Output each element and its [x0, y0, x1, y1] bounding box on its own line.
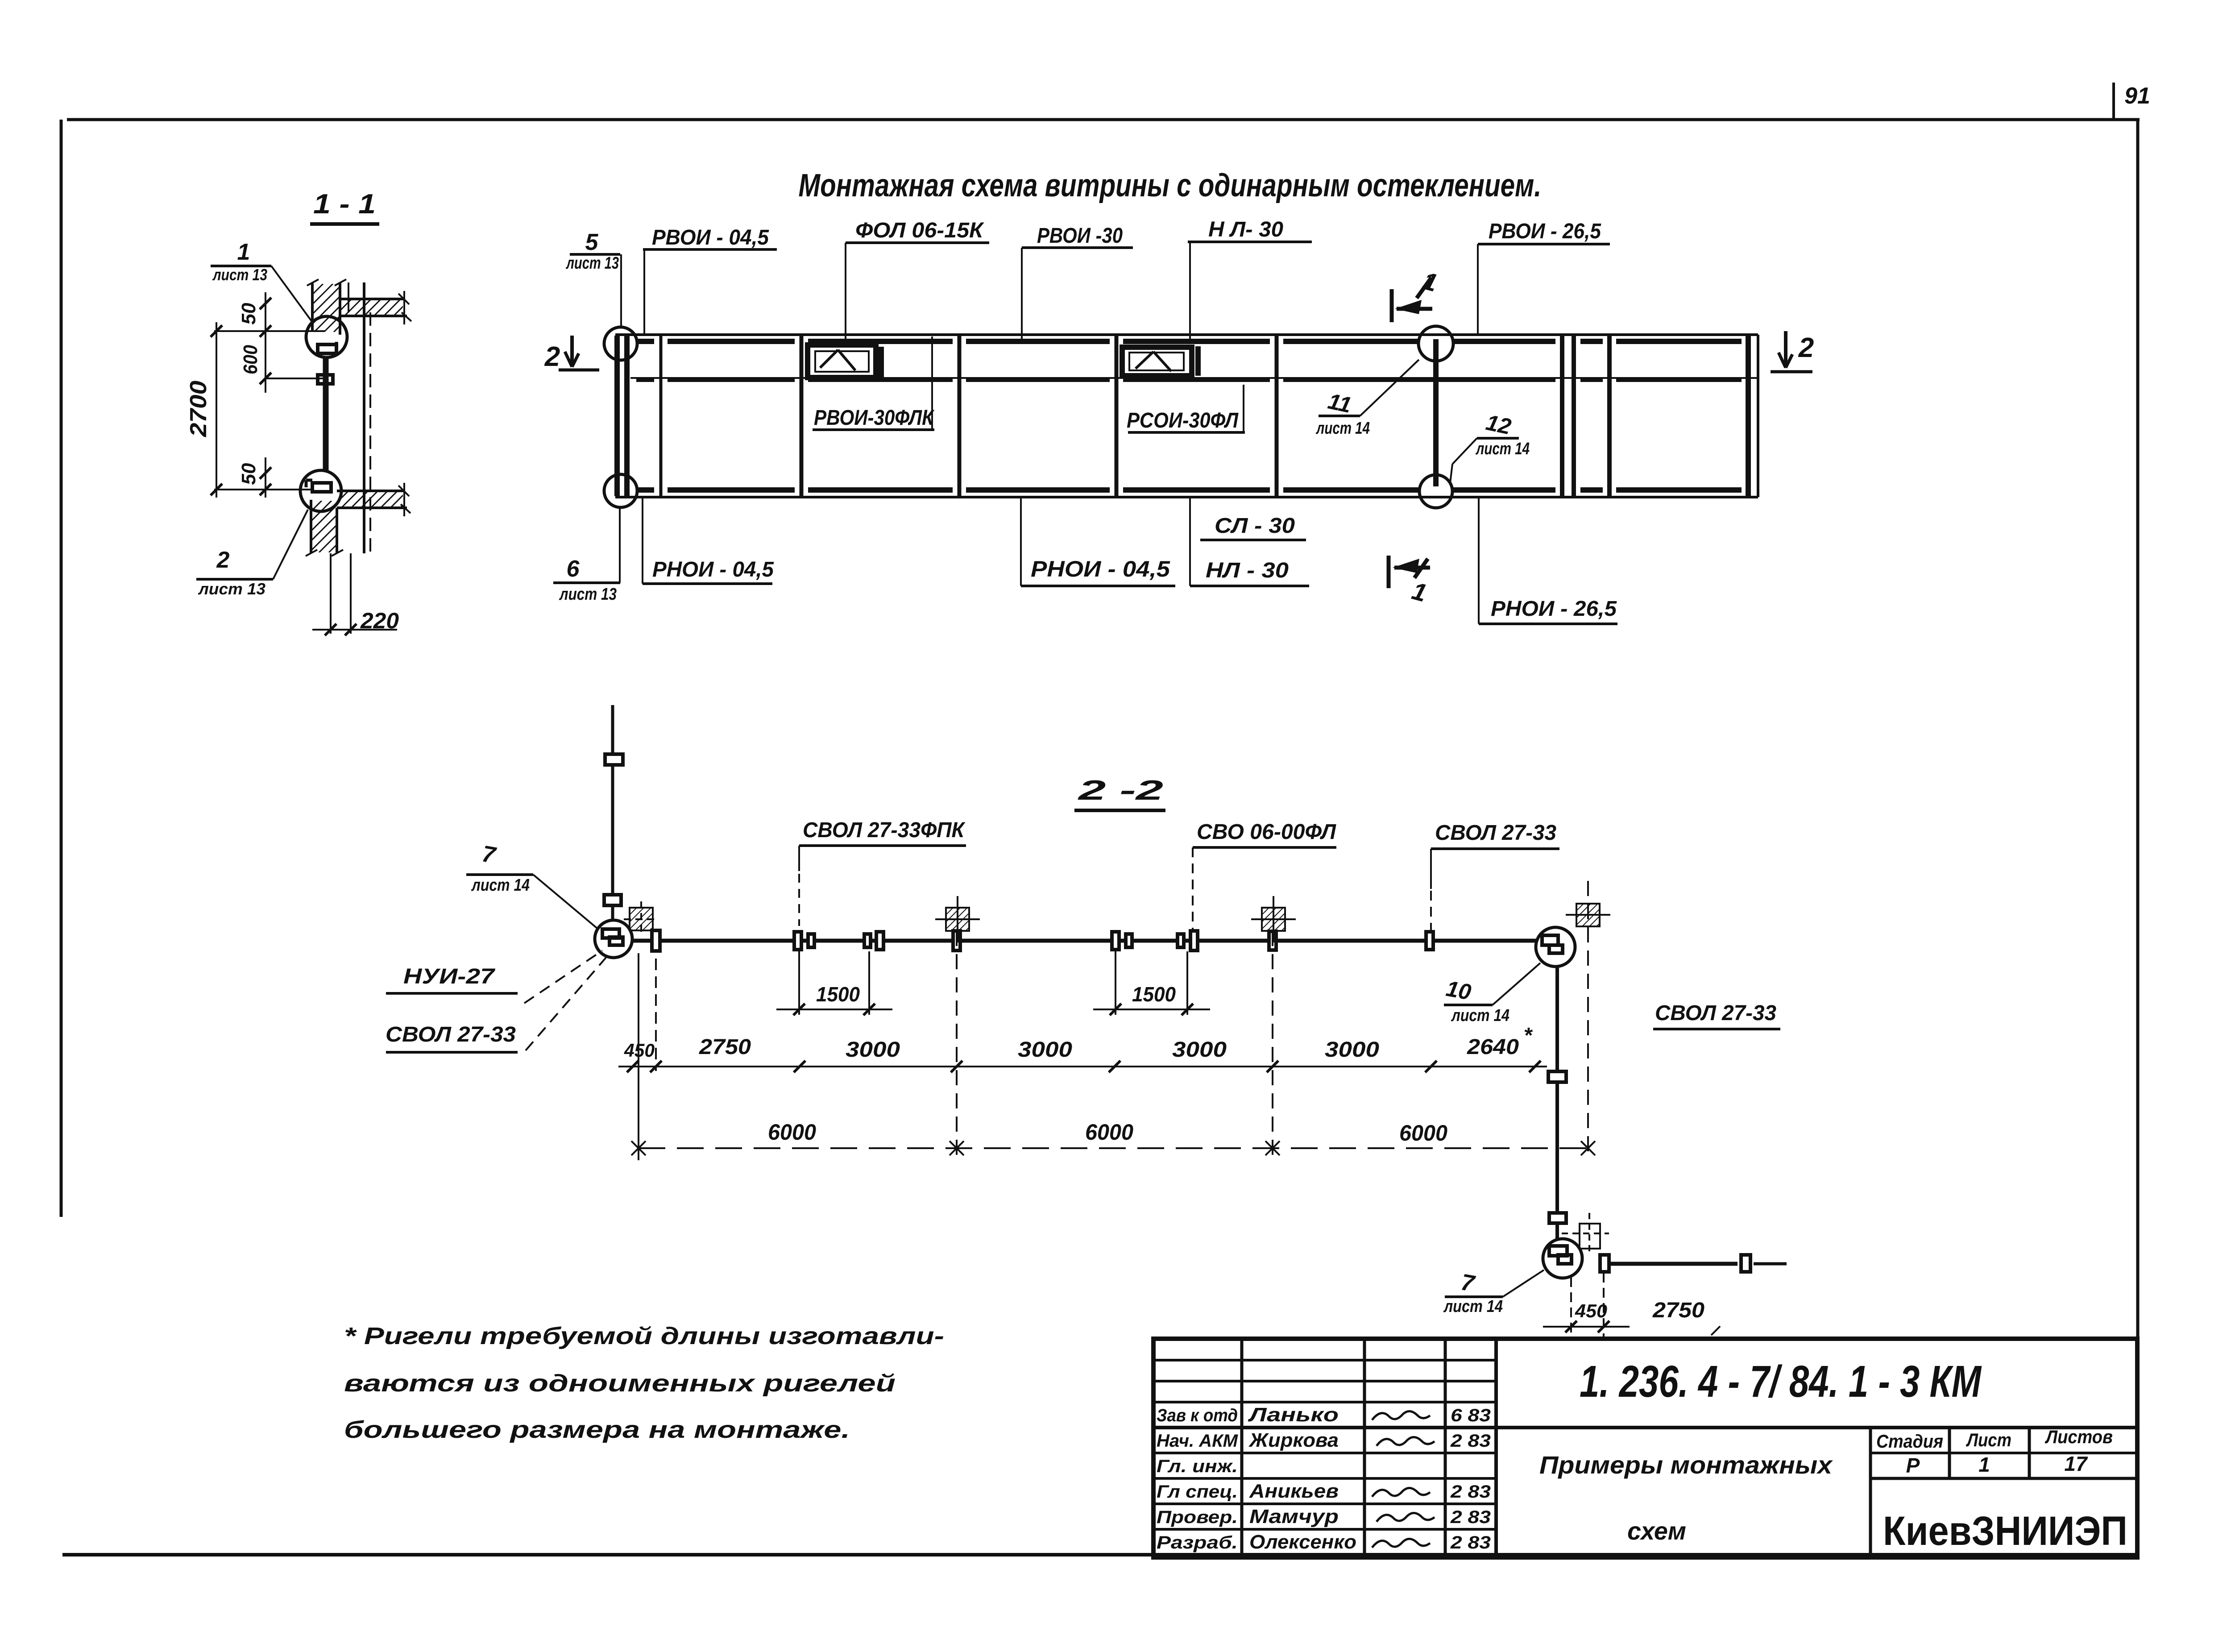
svg-text:6000: 6000 [1399, 1121, 1447, 1146]
node circle 6 (bottom left) [604, 474, 637, 507]
svg-text:6: 6 [567, 556, 580, 582]
svg-text:*: * [1524, 1024, 1533, 1047]
transom window FOL-1 [808, 345, 876, 378]
svg-text:7: 7 [480, 841, 498, 869]
dim witness top [214, 330, 325, 332]
svg-text:* Ригели требуемой длины и: * Ригели требуемой длины изготавли- [344, 1323, 944, 1349]
rail tick g (column) [1269, 931, 1276, 950]
expansion joint posts [1560, 336, 1564, 497]
sheet frame bottom border [62, 1553, 2138, 1557]
dim line 2700 [216, 322, 217, 498]
svg-text:СВОЛ 27-33ФПК: СВОЛ 27-33ФПК [803, 818, 966, 842]
svg-text:ваются из одноименных ригел: ваются из одноименных ригелей [344, 1370, 896, 1397]
svg-text:Монтажная схема витрины с: Монтажная схема витрины с одинарным осте… [799, 168, 1542, 203]
column B (hatched) [1262, 908, 1285, 931]
splice plate on return rail [1548, 1071, 1566, 1082]
bracket in circle 7b [1549, 1246, 1567, 1256]
svg-text:Стадия: Стадия [1876, 1431, 1943, 1452]
svg-text:12: 12 [1484, 410, 1514, 439]
svg-text:Листов: Листов [2044, 1426, 2113, 1447]
upper floor slab (hatched) [340, 298, 404, 300]
plate on axis lower [604, 895, 621, 905]
svg-text:СВОЛ 27-33: СВОЛ 27-33 [1655, 1001, 1776, 1025]
svg-text:11: 11 [1326, 389, 1353, 418]
sheet frame top border [67, 118, 2140, 121]
upper node circle 1 [306, 316, 347, 357]
dim 220 [312, 629, 397, 631]
rail tick pair c [864, 934, 871, 947]
svg-text:10: 10 [1444, 976, 1473, 1005]
return rail tick b [1741, 1255, 1750, 1272]
svg-text:220: 220 [360, 608, 399, 633]
svg-text:РВОИ -30: РВОИ -30 [1037, 224, 1123, 248]
splice plate [318, 375, 333, 384]
bracket in circle 7 [602, 929, 619, 938]
svg-text:Мамчур: Мамчур [1249, 1506, 1339, 1527]
svg-text:РНОИ - 26,5: РНОИ - 26,5 [1491, 597, 1617, 621]
dim chain row (450/2750/3000x4/2640*) [618, 1066, 1547, 1067]
bracket in circle 10 [1542, 935, 1558, 945]
svg-text:6000: 6000 [1085, 1120, 1133, 1145]
svg-text:лист 13: лист 13 [565, 254, 619, 273]
plan node circle 7 (bottom) [1543, 1239, 1582, 1278]
lower wall (hatched) [310, 500, 312, 553]
elevation top edge line [615, 333, 1758, 336]
section mark 2 (right) [1784, 331, 1787, 368]
column C (hatched) [1576, 904, 1600, 926]
svg-text:лист 13: лист 13 [559, 585, 617, 604]
svg-text:2 83: 2 83 [1450, 1431, 1491, 1451]
svg-text:3000: 3000 [846, 1038, 900, 1062]
elevation bottom edge line [615, 496, 1758, 498]
dim 1500 right [1115, 951, 1116, 1015]
wall axis line above [611, 705, 614, 920]
svg-text:Зав к отд: Зав к отд [1157, 1406, 1238, 1425]
svg-text:лист 14: лист 14 [1315, 419, 1370, 438]
section mark 1 (top) [1390, 289, 1394, 322]
wall bottom stubs [330, 553, 332, 634]
svg-text:2: 2 [1798, 332, 1814, 363]
svg-text:600: 600 [240, 345, 261, 374]
svg-text:2640: 2640 [1467, 1035, 1519, 1059]
svg-text:1: 1 [1420, 266, 1440, 297]
elevation bottom rail (dashed heavy) [638, 487, 654, 493]
svg-text:Нач. АКМ: Нач. АКМ [1157, 1431, 1239, 1451]
svg-text:2 83: 2 83 [1450, 1507, 1491, 1527]
dim witness bottom [214, 489, 312, 490]
svg-text:лист 13: лист 13 [212, 266, 267, 284]
return rail dash end [1754, 1262, 1787, 1266]
svg-text:Р: Р [1906, 1454, 1920, 1477]
signatures [1372, 1411, 1430, 1420]
svg-text:большего размера на монтаже.: большего размера на монтаже. [344, 1416, 850, 1443]
svg-text:РВОИ-30ФЛК: РВОИ-30ФЛК [814, 406, 935, 430]
mullion post (section) [323, 357, 329, 470]
svg-text:3000: 3000 [1018, 1038, 1072, 1062]
svg-text:лист 14: лист 14 [1443, 1297, 1503, 1316]
column A (hatched) [946, 908, 969, 931]
stanchion at 3607 [1607, 336, 1612, 497]
svg-text:Олексенко: Олексенко [1249, 1531, 1356, 1553]
svg-text:схем: схем [1627, 1517, 1686, 1545]
plan node circle 10 [1536, 927, 1575, 967]
rail tick h [1426, 932, 1433, 950]
svg-text:лист 14: лист 14 [1451, 1006, 1509, 1025]
return rail vertical [1555, 967, 1559, 1071]
svg-text:Ланько: Ланько [1248, 1404, 1339, 1426]
svg-text:НУИ-27: НУИ-27 [403, 965, 496, 988]
svg-text:2: 2 [544, 341, 560, 372]
svg-text:5: 5 [585, 229, 599, 255]
lower node circle 2 [300, 470, 341, 511]
svg-text:РВОИ - 04,5: РВОИ - 04,5 [652, 226, 769, 249]
svg-text:Аникьев: Аникьев [1249, 1480, 1339, 1502]
svg-text:2750: 2750 [1652, 1299, 1704, 1322]
svg-text:РВОИ - 26,5: РВОИ - 26,5 [1489, 220, 1601, 243]
svg-text:лист 14: лист 14 [1475, 440, 1530, 458]
rail tick pair b [794, 932, 801, 950]
svg-text:1500: 1500 [1132, 983, 1176, 1006]
svg-text:Разраб.: Разраб. [1157, 1533, 1238, 1552]
elevation top rail (dashed heavy) [638, 339, 654, 344]
plan node circle 7 (top) [595, 920, 632, 958]
mid mullion between node circles [1433, 339, 1439, 486]
node circle 11 (top middle) [1418, 326, 1453, 361]
node circle 12 (bottom middle) [1419, 475, 1452, 508]
witness dashed col B [1272, 931, 1273, 1157]
dim row 6000 [639, 1147, 1588, 1149]
return rail horizontal [1609, 1262, 1738, 1266]
svg-text:450: 450 [1575, 1300, 1607, 1321]
svg-text:2 83: 2 83 [1450, 1482, 1491, 1502]
right end post [1746, 336, 1751, 497]
svg-text:РНОИ - 04,5: РНОИ - 04,5 [652, 558, 774, 581]
dashed leaders to circle 7 [524, 951, 602, 1003]
dim 1500 left [798, 951, 800, 1015]
svg-text:3000: 3000 [1172, 1038, 1227, 1062]
svg-text:2700: 2700 [186, 381, 211, 437]
plan main rail [632, 939, 1536, 943]
svg-text:Провер.: Провер. [1157, 1507, 1238, 1527]
wall face lines [348, 282, 349, 312]
svg-text:50: 50 [238, 463, 260, 485]
svg-text:СВОЛ 27-33: СВОЛ 27-33 [386, 1023, 516, 1046]
svg-text:Лист: Лист [1966, 1429, 2011, 1450]
svg-text:лист 13: лист 13 [198, 580, 265, 598]
svg-text:СВО 06-00ФЛ: СВО 06-00ФЛ [1197, 820, 1336, 844]
witness dashed col C [1587, 881, 1589, 1157]
svg-text:450: 450 [624, 1040, 655, 1061]
svg-text:РСОИ-30ФЛ: РСОИ-30ФЛ [1127, 409, 1239, 432]
section mark 1 (bottom) [1387, 556, 1391, 588]
svg-text:1: 1 [1978, 1453, 1990, 1476]
svg-text:50: 50 [238, 303, 260, 324]
svg-text:СВОЛ 27-33: СВОЛ 27-33 [1435, 821, 1556, 845]
stanchion at 2861 [1275, 336, 1279, 497]
svg-text:лист 14: лист 14 [471, 876, 530, 895]
stanchion at 2150 [958, 336, 962, 497]
elevation mid rail [630, 377, 1758, 379]
lower bracket symbol [312, 483, 331, 492]
sheet frame left border [60, 120, 63, 1217]
svg-text:СЛ - 30: СЛ - 30 [1215, 514, 1295, 538]
rail tick d (column) [953, 931, 960, 951]
svg-text:2 -2: 2 -2 [1078, 775, 1163, 806]
svg-text:2: 2 [216, 547, 230, 573]
dim witness mid [265, 378, 323, 379]
svg-text:17: 17 [2064, 1452, 2088, 1475]
svg-text:Гл спец.: Гл спец. [1157, 1482, 1238, 1502]
rail tick pair f [1178, 934, 1184, 947]
transom window FOL-2 [1122, 347, 1192, 376]
svg-text:КиевЗНИИЭП: КиевЗНИИЭП [1883, 1508, 2127, 1554]
stanchion at 1796 [800, 336, 804, 497]
dim 450 bottom [1570, 1277, 1572, 1337]
svg-text:Гл. инж.: Гл. инж. [1157, 1457, 1238, 1476]
svg-text:Жиркова: Жиркова [1248, 1429, 1339, 1451]
sheet frame right border [2136, 120, 2140, 1557]
stanchion at 1481 [659, 336, 663, 497]
svg-text:РНОИ - 04,5: РНОИ - 04,5 [1031, 556, 1170, 581]
title block grid [1153, 1339, 2137, 1557]
svg-text:НЛ - 30: НЛ - 30 [1206, 559, 1289, 582]
svg-text:1 - 1: 1 - 1 [313, 189, 376, 220]
left end mullion (double post) [614, 336, 620, 496]
upper wall (hatched) [311, 282, 314, 331]
right end closure line [1757, 335, 1759, 497]
page number tick [2112, 83, 2115, 120]
splice plate above circle 7b [1549, 1213, 1566, 1223]
rail tick a [652, 930, 660, 951]
svg-text:6000: 6000 [768, 1120, 816, 1145]
svg-text:1: 1 [1409, 577, 1430, 607]
stanchion at 2502 [1115, 336, 1119, 497]
hatched pad at circle 7 [630, 908, 653, 930]
dashed pad at circle 7b [1580, 1224, 1600, 1249]
svg-text:1500: 1500 [816, 983, 860, 1006]
svg-text:3000: 3000 [1325, 1038, 1379, 1062]
node circle 5 (top left) [604, 327, 637, 360]
svg-text:7: 7 [1459, 1269, 1477, 1297]
witness dashed col A [956, 931, 958, 1157]
svg-text:2750: 2750 [699, 1035, 751, 1059]
svg-text:ФОЛ 06-15К: ФОЛ 06-15К [855, 219, 985, 242]
svg-text:6 83: 6 83 [1451, 1406, 1491, 1425]
svg-text:Н Л- 30: Н Л- 30 [1208, 218, 1283, 241]
dim 50 bottom [265, 457, 266, 498]
svg-text:1. 236. 4 - 7/ 84. 1 - 3 КМ: 1. 236. 4 - 7/ 84. 1 - 3 КМ [1580, 1357, 1982, 1407]
svg-text:Примеры монтажных: Примеры монтажных [1539, 1451, 1833, 1479]
plate on axis upper [605, 754, 623, 765]
svg-text:1: 1 [237, 239, 250, 265]
return rail tick a [1600, 1255, 1609, 1272]
svg-text:91: 91 [2124, 83, 2150, 109]
dim line 50-600 [265, 292, 266, 393]
upper bracket symbol [318, 345, 336, 353]
lower floor slab (hatched) [337, 490, 404, 492]
rail tick pair e [1112, 932, 1119, 950]
svg-text:2 83: 2 83 [1450, 1533, 1491, 1552]
